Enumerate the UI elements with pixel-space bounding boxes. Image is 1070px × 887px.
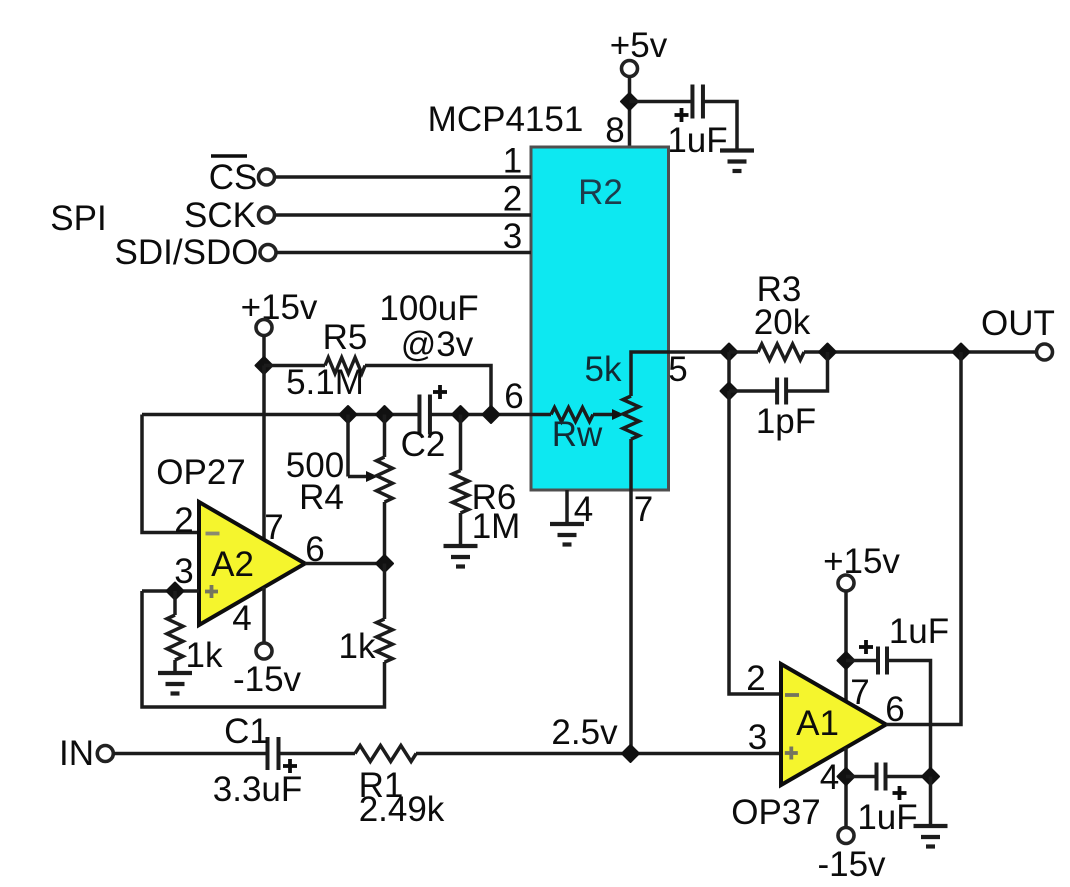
svg-text:7: 7 [634,490,653,529]
ground (1k left) [158,673,192,694]
wire pin 5 to node A [668,350,729,354]
svg-text:OP37: OP37 [731,793,821,832]
A2 pin 7 label [264,508,283,547]
wire bottom 1uF to ground node [886,775,931,779]
svg-text:C1: C1 [224,712,269,751]
wire node C down to A1 pin 2 [729,391,781,694]
pin 2 label [503,180,522,219]
svg-text:4: 4 [820,758,839,797]
ground (A1 bypass) [914,826,948,847]
node A (pin5/R3) [721,344,738,361]
svg-text:MCP4151: MCP4151 [428,100,584,139]
wire top 1uF to ground rail [887,661,931,777]
wire SDI/SDO to pin 3 [276,251,531,255]
wire pin4 to bottom 1uF [846,775,876,779]
svg-text:A2: A2 [211,545,254,584]
node A1 supply junction [838,652,855,669]
capacitor C1 3.3uF [213,712,303,809]
resistor R4 500 trimmer [286,446,393,517]
wire SCK to pin 2 [275,213,532,217]
label OP27 [156,453,246,492]
wire R4 to A2 output node [383,502,387,564]
svg-text:4: 4 [232,599,251,638]
svg-text:+5v: +5v [610,26,668,65]
wire R1 to A1 pin 3 [416,752,781,756]
svg-text:3.3uF: 3.3uF [213,770,303,809]
pin 6 label [504,377,523,416]
wire A2 pin 3 row [142,589,199,593]
power -15v terminal (A1) [817,828,886,885]
svg-text:5.1M: 5.1M [286,363,364,402]
svg-text:3: 3 [748,718,767,757]
wire node A down to 1pF row [727,352,731,391]
A2 pin 4 label [232,599,251,638]
svg-text:5k: 5k [585,350,622,389]
svg-text:2.5v: 2.5v [551,713,618,752]
potentiometer 5k element [585,350,639,439]
node rail wiper [340,406,357,423]
capacitor 1pF [756,378,816,442]
wire 5k top to pin 5 [631,352,668,396]
svg-text:SDI/SDO: SDI/SDO [115,233,259,272]
ground (top bypass) [720,151,754,172]
svg-text:3: 3 [503,217,522,256]
svg-text:1: 1 [503,142,522,181]
node B (R3 right) [819,344,836,361]
ground (R6) [444,546,478,567]
resistor R1 2.49k [355,746,445,830]
svg-text:1uF: 1uF [857,798,917,837]
A2 minus input mark [206,532,220,536]
svg-text:1M: 1M [472,507,521,546]
capacitor C2 100uF [401,385,447,464]
svg-text:1k: 1k [339,627,376,666]
ground (pot pin 4) [550,524,584,545]
wire IN to C1 [114,752,268,756]
svg-text:Rw: Rw [552,415,603,454]
label OP37 [731,793,821,832]
svg-text:R5: R5 [323,318,368,357]
wire R6 to ground [459,513,463,545]
svg-text:7: 7 [850,673,869,712]
pin 8 label [605,111,624,150]
wire C bypass to ground [703,102,737,150]
wire R3 to OUT [804,350,1037,354]
power +5v terminal [610,26,668,77]
power +15v terminal (A1) [823,542,900,591]
svg-text:+15v: +15v [241,288,318,327]
power +15v terminal (left) [241,288,318,336]
A1 pin 4 label [820,758,839,797]
svg-text:1uF: 1uF [889,612,949,651]
label 2.5v [551,713,618,752]
wire R5 to pin-6 node [365,366,491,415]
wire 1pF right up to node B [786,352,828,391]
node 2.5v junction [622,745,639,762]
node OUT junction [953,344,970,361]
node ground junction (A1) [922,768,939,785]
wire +15v to A1 pin 7 [844,591,848,702]
wire 5k bottom pin 7 down [629,439,633,754]
svg-text:IN: IN [59,734,94,773]
capacitor 1uF (top bypass) [667,85,727,161]
A1 pin 7 label [850,673,869,712]
op-amp A1 triangle [781,664,886,785]
wire A2 pin 4 [262,587,266,644]
A2 pin 3 label [174,552,193,591]
svg-text:R2: R2 [578,173,623,212]
wire wiper drop [346,415,350,477]
wire rail left segment [142,413,419,417]
wire to ground (A1) [929,777,933,826]
svg-text:6: 6 [504,377,523,416]
pin 5 label [668,350,687,389]
svg-text:SPI: SPI [50,199,106,238]
node A2 pin 3 [167,583,184,600]
svg-text:CS: CS [209,158,258,197]
label MCP4151 [428,100,584,139]
label 100uF @3v [379,289,478,364]
svg-text:1k: 1k [186,636,223,675]
svg-text:2: 2 [503,180,522,219]
input SDI/SDO [115,233,276,272]
wire rail to R6 [459,415,463,471]
wire loop pin3 to 1k bottom [142,591,385,707]
wire rail right segment [430,413,531,417]
svg-text:20k: 20k [754,303,811,342]
input CS (with overline) [209,156,275,197]
svg-text:2: 2 [174,501,193,540]
wire C1 to R1 [279,752,355,756]
svg-text:+15v: +15v [823,542,900,581]
A2 pin 2 label [174,501,193,540]
node A2 output junction [376,555,393,572]
A1 plus input mark [785,747,798,760]
svg-text:2.49k: 2.49k [359,790,445,829]
svg-text:8: 8 [605,111,624,150]
A2 pin 6 label [305,530,324,569]
wire +5v to pin 8 [628,77,632,148]
arrow Rw wiper [593,409,624,420]
wire 1pF left [729,389,777,393]
svg-text:OUT: OUT [981,304,1055,343]
capacitor 1uF (A1 top bypass) [859,612,949,675]
svg-text:-15v: -15v [233,660,302,699]
resistor R6 1M [453,471,521,547]
svg-text:100uF: 100uF [379,289,478,328]
wire A1 pin 4 [844,748,848,828]
node A1 pin 4 [838,768,855,785]
wire +15v down to A2 pin 7 [262,366,266,541]
wire rail to R4 [383,415,387,458]
A2 plus input mark [205,585,218,598]
svg-text:2: 2 [746,659,765,698]
resistor R3 20k [754,270,811,360]
pin 7 label [634,490,653,529]
arrow R4 wiper [348,471,378,482]
input SCK [184,196,274,235]
pin 4 stub [565,490,569,523]
digital pot R2 (MCP4151 body) [531,147,669,490]
svg-text:-15v: -15v [817,845,886,884]
wire CS to pin 1 [275,175,532,179]
wire A2 output [305,562,385,566]
A1 pin 2 label [746,659,765,698]
svg-text:C2: C2 [401,425,446,464]
svg-text:@3v: @3v [401,325,474,364]
wire pin6 into box [531,413,551,417]
wire to top 1uF [846,659,878,663]
node rail pin 6 [483,406,500,423]
A1 minus input mark [785,693,799,697]
svg-text:1pF: 1pF [756,402,816,441]
node C (1pF left) [721,383,738,400]
node +15v junction [256,357,273,374]
wire to R5 [264,364,325,368]
output terminal OUT [981,304,1055,360]
wire to C bypass [630,100,693,104]
svg-text:A1: A1 [796,704,839,743]
svg-text:7: 7 [264,508,283,547]
A1 pin 6 label [885,690,904,729]
wire feedback to A2 pin 2 [142,415,199,533]
resistor Rw [551,408,603,455]
power -15v terminal (A2) [233,643,302,699]
node rail R6 top [452,406,469,423]
svg-text:SCK: SCK [184,196,256,235]
svg-text:OP27: OP27 [156,453,246,492]
wire A1 output to OUT [886,352,961,725]
capacitor 1uF (A1 bottom bypass) [857,763,917,838]
pin 1 label [503,142,522,181]
svg-text:5: 5 [668,350,687,389]
svg-text:1uF: 1uF [667,121,727,160]
wire node A to R3 [729,350,758,354]
A1 pin 3 label [748,718,767,757]
pin 3 label [503,217,522,256]
resistor 1k (A2 pin3 to gnd) [167,591,223,675]
svg-text:R4: R4 [299,478,344,517]
node rail R4 top [376,406,393,423]
op-amp A2 triangle [199,502,305,625]
input terminal IN [59,734,113,773]
pin 4 label [574,490,593,529]
label SPI [50,199,106,238]
resistor 1k (right divider) [339,564,393,667]
resistor R5 5.1M [286,318,367,402]
node +5v junction [621,93,638,110]
wire +15v stub [262,336,266,366]
